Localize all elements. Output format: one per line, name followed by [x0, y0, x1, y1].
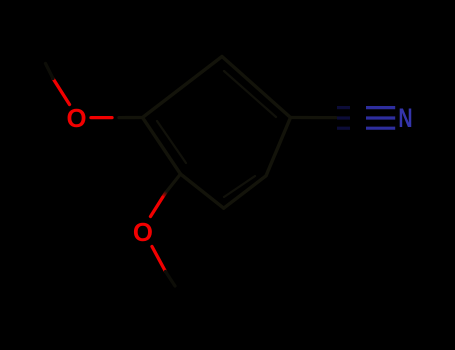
nitrile triple bond upper line [337, 106, 395, 109]
aromatic double bond inner line C3-C4 [157, 121, 186, 163]
bond C1 to nitrile carbon (dark) [291, 116, 337, 119]
methyl bond from O2, fade to carbon [166, 272, 176, 287]
svg-text:O: O [67, 105, 87, 133]
aromatic double bond inner line C5-C6 [224, 71, 276, 117]
bond C3 to O2, carbon half (dark) [165, 174, 181, 194]
bond C4 to O1, oxygen half (red) [91, 116, 112, 119]
benzene ring C4-C5 edge [143, 57, 223, 118]
bond C4 to O1, fade [112, 116, 119, 119]
methyl bond from O1 (red half) [53, 79, 70, 105]
bond C3 to O2, fade [163, 192, 167, 198]
nitrile triple bond middle line [337, 116, 395, 119]
benzene ring C5-C6 edge [222, 57, 291, 118]
bond C3 to O2, oxygen half (red) [151, 198, 163, 217]
benzene ring C2-C3 edge [181, 174, 224, 208]
svg-text:N: N [398, 103, 412, 133]
benzene ring C3-C4 edge [143, 118, 181, 175]
bond C4 to O1, carbon half (dark) [119, 116, 143, 119]
methyl bond from O2 (red half) [152, 247, 166, 272]
aromatic double bond inner line C1-C2 [224, 176, 255, 197]
nitrile triple bond lower line [337, 127, 395, 130]
benzene ring C6-C1 edge [266, 118, 291, 176]
methyl bond from O1, fade to carbon [46, 64, 54, 79]
svg-text:O: O [133, 219, 153, 247]
benzene ring C1-C2 edge [224, 176, 266, 208]
